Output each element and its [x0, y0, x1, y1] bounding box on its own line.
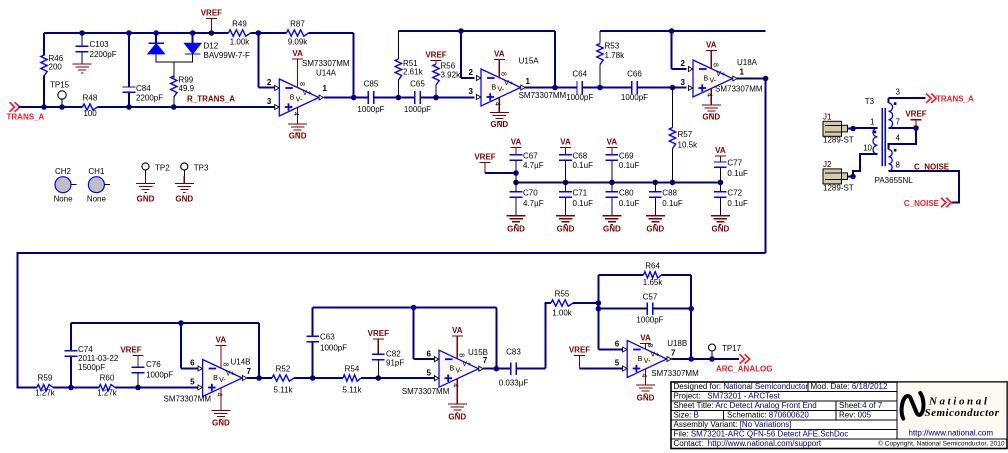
svg-text:0.1uF: 0.1uF: [727, 169, 748, 178]
svg-text:C65: C65: [410, 80, 425, 89]
svg-text:VA: VA: [292, 49, 303, 58]
svg-text:R87: R87: [290, 20, 305, 29]
svg-text:4: 4: [215, 393, 222, 397]
svg-text:GND: GND: [212, 419, 230, 428]
svg-text:0.1uF: 0.1uF: [573, 161, 594, 170]
svg-text:VA: VA: [216, 336, 227, 345]
svg-text:1: 1: [870, 118, 875, 127]
svg-text:National: National: [928, 396, 990, 408]
svg-text:Designed for: National Semicon: Designed for: National Semiconductor: [674, 382, 809, 391]
svg-text:TP3: TP3: [194, 164, 209, 173]
svg-text:C68: C68: [573, 152, 588, 161]
svg-text:R49: R49: [232, 20, 247, 29]
svg-text:VREF: VREF: [201, 9, 222, 18]
svg-text:R64: R64: [645, 262, 660, 271]
svg-text:V+: V+: [303, 90, 312, 97]
svg-text:3: 3: [896, 88, 901, 97]
svg-text:C71: C71: [573, 189, 588, 198]
svg-text:4: 4: [896, 134, 901, 143]
svg-text:C76: C76: [146, 360, 161, 369]
svg-text:5: 5: [427, 368, 432, 377]
svg-text:C80: C80: [619, 189, 634, 198]
svg-text:R54: R54: [345, 365, 360, 374]
svg-text:B: B: [704, 76, 709, 83]
svg-text:B: B: [450, 366, 455, 373]
svg-text:C85: C85: [364, 80, 379, 89]
svg-text:SM73307MM: SM73307MM: [164, 395, 212, 404]
svg-text:File: SM73201-ARC QFN-56 Detec: File: SM73201-ARC QFN-56 Detect AFE.SchD…: [674, 430, 849, 439]
svg-text:3: 3: [267, 97, 272, 106]
svg-text:6: 6: [190, 359, 195, 368]
svg-text:1000pF: 1000pF: [320, 344, 347, 353]
svg-text:C83: C83: [506, 348, 521, 357]
svg-text:GND: GND: [289, 132, 307, 141]
svg-text:4.7µF: 4.7µF: [523, 199, 544, 208]
svg-text:0.1uF: 0.1uF: [619, 199, 640, 208]
svg-text:VA: VA: [494, 50, 505, 59]
svg-text:VREF: VREF: [569, 346, 590, 355]
svg-text:4: 4: [494, 102, 501, 106]
svg-text:C72: C72: [727, 189, 742, 198]
svg-text:Schematic: 870600620: Schematic: 870600620: [727, 411, 809, 420]
svg-text:U18B: U18B: [667, 339, 687, 348]
svg-text:TP2: TP2: [155, 164, 170, 173]
svg-text:V+: V+: [651, 352, 660, 359]
svg-text:V-: V-: [296, 97, 303, 104]
svg-text:V+: V+: [226, 371, 235, 378]
svg-text:7: 7: [247, 367, 252, 376]
svg-text:1000pF: 1000pF: [146, 371, 173, 380]
svg-text:TRANS_A: TRANS_A: [7, 112, 45, 121]
svg-text:6: 6: [615, 340, 620, 349]
svg-text:V-: V-: [498, 87, 505, 94]
svg-text:0.1uF: 0.1uF: [573, 199, 594, 208]
svg-text:Mod. Date: 6/18/2012: Mod. Date: 6/18/2012: [811, 382, 889, 391]
svg-text:8: 8: [458, 353, 465, 357]
svg-text:1289-ST: 1289-ST: [823, 184, 854, 193]
svg-text:2: 2: [267, 78, 272, 87]
svg-text:C63: C63: [320, 333, 335, 342]
svg-text:R53: R53: [605, 42, 620, 51]
svg-text:B: B: [492, 85, 497, 92]
svg-text:None: None: [53, 195, 73, 204]
svg-text:6: 6: [427, 349, 432, 358]
svg-text:5.11k: 5.11k: [343, 386, 363, 395]
svg-text:SM73307MM: SM73307MM: [715, 85, 763, 94]
svg-text:1: 1: [526, 77, 531, 86]
svg-text:R60: R60: [100, 374, 115, 383]
svg-text:V-: V-: [456, 368, 463, 375]
svg-text:4: 4: [706, 93, 713, 97]
svg-text:U14A: U14A: [316, 69, 337, 78]
svg-text:C84: C84: [136, 84, 151, 93]
svg-text:D12: D12: [204, 42, 219, 51]
svg-text:4.7µF: 4.7µF: [523, 161, 544, 170]
svg-text:CH2: CH2: [55, 167, 72, 176]
svg-text:3: 3: [469, 87, 474, 96]
svg-text:Size: B: Size: B: [674, 411, 699, 420]
svg-text:1: 1: [323, 84, 328, 93]
svg-text:None: None: [87, 195, 107, 204]
svg-text:VA: VA: [607, 138, 618, 147]
svg-text:7: 7: [896, 118, 901, 127]
svg-text:Sheet Title: Arc Detect Analog: Sheet Title: Arc Detect Analog Front End: [674, 401, 817, 410]
svg-text:B: B: [638, 356, 643, 363]
svg-text:V-: V-: [710, 78, 717, 85]
svg-text:VA: VA: [715, 146, 726, 155]
svg-text:C67: C67: [523, 152, 538, 161]
svg-text:V-: V-: [219, 377, 226, 384]
svg-text:1.27k: 1.27k: [97, 389, 118, 398]
svg-text:SM73307MM: SM73307MM: [302, 59, 350, 68]
svg-text:0.1uF: 0.1uF: [662, 199, 683, 208]
svg-text:C_NOISE: C_NOISE: [904, 199, 940, 208]
svg-text:BAV99W-7-F: BAV99W-7-F: [204, 51, 250, 60]
svg-text:10: 10: [863, 144, 872, 153]
svg-text:V+: V+: [462, 361, 471, 368]
svg-text:R59: R59: [38, 374, 53, 383]
svg-text:8: 8: [298, 82, 305, 86]
svg-text:1.00k: 1.00k: [230, 38, 251, 47]
svg-text:3: 3: [681, 78, 686, 87]
svg-text:GND: GND: [712, 225, 730, 234]
svg-text:J1: J1: [823, 113, 832, 122]
svg-text:3.92k: 3.92k: [441, 71, 462, 80]
svg-text:VREF: VREF: [474, 153, 495, 162]
svg-text:9.09k: 9.09k: [288, 38, 309, 47]
svg-text:1.65k: 1.65k: [643, 278, 664, 287]
svg-text:J2: J2: [823, 160, 832, 169]
svg-text:TRANS_A: TRANS_A: [936, 94, 974, 103]
svg-text:200: 200: [49, 63, 63, 72]
svg-text:1: 1: [740, 68, 745, 77]
svg-text:1000pF: 1000pF: [566, 93, 593, 102]
svg-text:R48: R48: [83, 94, 98, 103]
svg-text:VA: VA: [452, 326, 463, 335]
svg-text:VA: VA: [706, 41, 717, 50]
svg-text:GND: GND: [637, 394, 655, 403]
svg-text:0.1uF: 0.1uF: [727, 199, 748, 208]
svg-text:1500pF: 1500pF: [78, 363, 105, 372]
svg-text:R55: R55: [555, 290, 570, 299]
svg-text:PA3655NL: PA3655NL: [875, 176, 914, 185]
svg-text:1000pF: 1000pF: [636, 316, 663, 325]
svg-text:5: 5: [190, 378, 195, 387]
svg-text:GND: GND: [490, 120, 508, 129]
svg-text:C103: C103: [90, 40, 110, 49]
svg-text:Rev: 005: Rev: 005: [839, 411, 872, 420]
svg-text:SM73307MM: SM73307MM: [651, 369, 699, 378]
svg-text:GND: GND: [175, 195, 193, 204]
svg-text:GND: GND: [702, 113, 720, 122]
svg-text:Semiconductor: Semiconductor: [925, 407, 1000, 419]
svg-text:2011-03-22: 2011-03-22: [78, 354, 119, 363]
svg-text:100: 100: [83, 109, 97, 118]
svg-text:49.9: 49.9: [179, 84, 195, 93]
svg-text:U14B: U14B: [231, 357, 251, 366]
svg-text:V-: V-: [644, 358, 651, 365]
svg-text:1000pF: 1000pF: [357, 105, 384, 114]
svg-text:R52: R52: [276, 365, 291, 374]
svg-text:U18A: U18A: [737, 58, 758, 67]
svg-text:1000pF: 1000pF: [621, 93, 648, 102]
svg-text:C70: C70: [523, 189, 538, 198]
svg-text:U15B: U15B: [468, 348, 488, 357]
svg-text:Project: SM73201 - ARCTest: Project: SM73201 - ARCTest: [674, 392, 781, 401]
svg-text:SM73307MM: SM73307MM: [402, 387, 450, 396]
svg-text:8: 8: [646, 344, 653, 348]
svg-text:GND: GND: [137, 195, 155, 204]
svg-text:8: 8: [712, 63, 719, 67]
svg-text:91pF: 91pF: [386, 359, 404, 368]
svg-text:8: 8: [500, 72, 507, 76]
svg-text:Sheet:4 of 7: Sheet:4 of 7: [839, 401, 883, 410]
svg-text:C69: C69: [619, 152, 634, 161]
svg-text:TP17: TP17: [722, 344, 742, 353]
svg-text:5.11k: 5.11k: [274, 386, 294, 395]
svg-text:1.78k: 1.78k: [605, 51, 626, 60]
svg-text:1000pF: 1000pF: [404, 105, 431, 114]
svg-text:5: 5: [615, 359, 620, 368]
svg-text:4: 4: [452, 383, 459, 387]
svg-text:VA: VA: [640, 334, 651, 343]
svg-text:4: 4: [292, 112, 299, 116]
svg-text:Assembly Variant: [No Variatio: Assembly Variant: [No Variations]: [674, 420, 792, 429]
svg-text:C77: C77: [727, 159, 742, 168]
svg-text:7: 7: [483, 356, 488, 365]
svg-text:C74: C74: [78, 345, 93, 354]
svg-text:1.00k: 1.00k: [552, 309, 573, 318]
svg-text:2.61k: 2.61k: [403, 68, 424, 77]
svg-text:1.27k: 1.27k: [35, 389, 56, 398]
svg-text:T3: T3: [865, 97, 875, 106]
svg-text:http://www.national.com: http://www.national.com: [909, 429, 994, 438]
svg-text:ARC_ANALOG: ARC_ANALOG: [716, 365, 772, 374]
svg-text:GND: GND: [448, 413, 466, 422]
svg-text:8: 8: [221, 363, 228, 367]
svg-text:VA: VA: [560, 138, 571, 147]
svg-text:SM73307MM: SM73307MM: [519, 91, 567, 100]
svg-text:VA: VA: [511, 138, 522, 147]
svg-text:C_NOISE: C_NOISE: [914, 162, 950, 171]
svg-text:C66: C66: [627, 70, 642, 79]
svg-text:1289-ST: 1289-ST: [823, 136, 854, 145]
svg-text:VREF: VREF: [368, 329, 389, 338]
svg-text:V+: V+: [716, 71, 725, 78]
svg-text:C82: C82: [386, 350, 401, 359]
svg-text:CH1: CH1: [88, 167, 105, 176]
svg-text:4: 4: [640, 374, 647, 378]
svg-text:R56: R56: [441, 62, 456, 71]
svg-text:10.5k: 10.5k: [678, 141, 699, 150]
svg-text:8: 8: [896, 161, 901, 170]
svg-text:TP15: TP15: [50, 81, 70, 90]
svg-text:B: B: [290, 95, 295, 102]
svg-text:2: 2: [469, 68, 474, 77]
svg-text:© Copyright, National Semicond: © Copyright, National Semiconductor, 201…: [878, 440, 1005, 448]
svg-text:VREF: VREF: [120, 346, 141, 355]
svg-text:GND: GND: [557, 225, 575, 234]
svg-text:C57: C57: [643, 293, 658, 302]
svg-text:7: 7: [671, 349, 676, 358]
svg-text:C64: C64: [572, 70, 587, 79]
svg-text:Contact: http://www.national.: Contact: http://www.national.com/support: [674, 439, 822, 448]
svg-text:VREF: VREF: [905, 110, 926, 119]
svg-text:GND: GND: [507, 225, 525, 234]
svg-text:VREF: VREF: [425, 51, 446, 60]
svg-text:2200pF: 2200pF: [136, 94, 163, 103]
svg-text:U15A: U15A: [519, 57, 540, 66]
svg-text:R_TRANS_A: R_TRANS_A: [187, 95, 235, 104]
svg-text:0.033µF: 0.033µF: [499, 379, 529, 388]
svg-text:GND: GND: [646, 225, 664, 234]
svg-text:0.1uF: 0.1uF: [619, 161, 640, 170]
svg-text:2200pF: 2200pF: [90, 50, 117, 59]
svg-text:C88: C88: [662, 189, 677, 198]
svg-text:GND: GND: [603, 225, 621, 234]
svg-text:R57: R57: [678, 130, 693, 139]
svg-text:2: 2: [681, 59, 686, 68]
svg-text:B: B: [213, 375, 218, 382]
svg-text:V+: V+: [504, 80, 513, 87]
